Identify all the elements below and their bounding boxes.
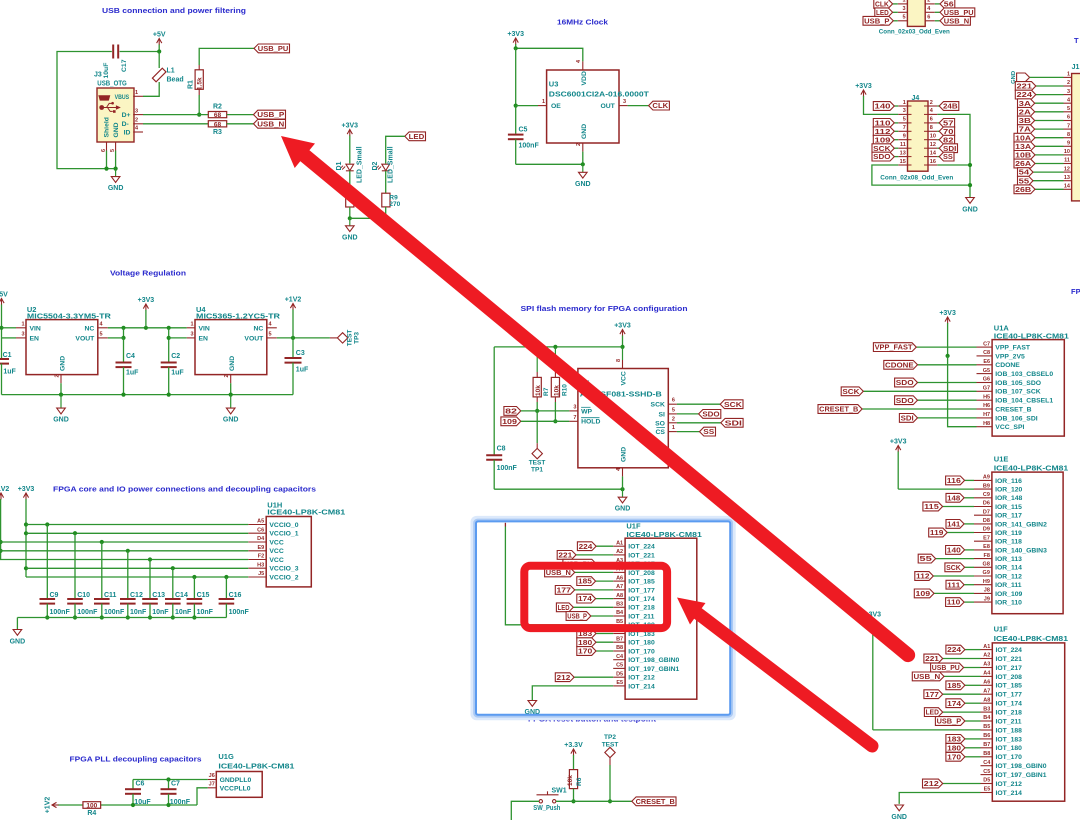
svg-text:VCCIO_2: VCCIO_2 [269, 574, 298, 581]
wire CRESET_B label to pin H6 [862, 408, 976, 410]
svg-text:A3: A3 [983, 662, 990, 668]
svg-text:IOT_185: IOT_185 [996, 683, 1023, 690]
wire +3V3 to D1 [349, 136, 351, 164]
svg-text:USB_OTG: USB_OTG [97, 81, 127, 88]
pin 1 VIN of U2 [16, 327, 26, 329]
svg-text:A6: A6 [983, 680, 990, 686]
global label USB_PU at top connector right [940, 8, 975, 17]
svg-text:FPGA PLL decoupling capacitors: FPGA PLL decoupling capacitors [70, 755, 202, 764]
USB trident icon inside J3 [99, 102, 121, 113]
svg-text:VCCPLL0: VCCPLL0 [220, 785, 251, 792]
svg-text:2: 2 [1067, 80, 1070, 86]
wire SW1 left down to edge [511, 801, 539, 820]
flash top rail [494, 346, 622, 348]
pin E9 VCC of U1H [248, 550, 266, 552]
ground symbol below D1 [349, 218, 351, 226]
svg-text:1: 1 [902, 0, 905, 4]
global label CDONE [884, 360, 918, 369]
global label 10A at J1 [1014, 133, 1035, 142]
pin B8 IOT_170 of U1F right [981, 756, 993, 758]
svg-text:GND: GND [342, 234, 358, 241]
svg-text:SS: SS [703, 429, 714, 436]
svg-text:148: 148 [947, 495, 960, 502]
svg-text:VDD: VDD [581, 71, 588, 85]
pin 8 VCC of U5 [622, 347, 624, 360]
global label 3A at J1 [1018, 99, 1035, 108]
pin A8 IOT_174 of U1F right [981, 702, 993, 704]
svg-text:2: 2 [576, 143, 582, 146]
pin C6 VCCIO_1 of U1H [248, 532, 266, 534]
wire VCCIO_2 row [26, 576, 248, 578]
wire USB_PU label to U1F right pin [964, 667, 981, 669]
svg-text:TP2: TP2 [604, 734, 616, 741]
wire J4 pin 15 to ground [872, 165, 970, 185]
svg-text:55: 55 [1019, 178, 1030, 185]
global label 174 at U1F center [577, 594, 596, 603]
svg-text:+1V2: +1V2 [45, 797, 52, 814]
global label SS at J4 right [939, 152, 954, 161]
global label 185 at U1F right [946, 681, 965, 690]
svg-text:DSC6001CI2A-016.0000T: DSC6001CI2A-016.0000T [549, 89, 649, 98]
svg-text:IOT_177: IOT_177 [628, 587, 655, 594]
wire C17 right to junction [120, 51, 160, 53]
global label LED at U1F right [924, 708, 942, 717]
svg-text:IOR_115: IOR_115 [995, 504, 1022, 511]
pin G6 IOB_105_SDO of U1A [977, 382, 993, 384]
wire USB_N label to U1F right pin [944, 675, 981, 677]
svg-text:GND: GND [108, 185, 124, 192]
svg-text:C10: C10 [77, 592, 90, 599]
svg-text:A1: A1 [616, 540, 623, 546]
svg-text:+3V3: +3V3 [507, 31, 524, 38]
wire 180 label to U1F center pin [596, 641, 613, 643]
svg-text:G5: G5 [983, 368, 990, 374]
pin 4 of J1 [1064, 102, 1072, 104]
svg-text:VCC: VCC [269, 539, 283, 546]
wire R2 to USB_P label [227, 114, 254, 116]
svg-text:D5: D5 [983, 778, 990, 784]
junction dots on +3V3 column [24, 522, 28, 526]
pin 5 of J4 [898, 122, 907, 124]
svg-text:10nF: 10nF [152, 609, 169, 616]
svg-text:3B: 3B [1019, 118, 1031, 125]
global label 26B at J1 [1014, 185, 1035, 194]
svg-text:B4: B4 [616, 610, 624, 616]
pin B3 IOT_218 of U1F right [981, 711, 993, 713]
svg-text:C2: C2 [171, 353, 180, 360]
svg-text:IOT_214: IOT_214 [996, 790, 1023, 797]
global label 115 at U1E [923, 502, 943, 511]
global label CRESET_B at reset [632, 797, 676, 806]
red highlight rectangle [524, 566, 667, 628]
svg-text:F8: F8 [983, 553, 989, 559]
global label USB_PU [254, 44, 290, 53]
global label 170 at U1F center [577, 647, 596, 656]
svg-text:D2: D2 [372, 161, 379, 170]
svg-text:12: 12 [1064, 166, 1070, 172]
wire 119 label to U1E pin [947, 532, 974, 534]
pin H5 IOB_104_CBSEL1 of U1A [977, 399, 993, 401]
svg-text:CS: CS [655, 429, 665, 436]
global label 112 at J4 left [873, 127, 894, 136]
wire 112 label to U1E pin [933, 575, 974, 577]
wire 221 label to J1 pin 2 [1036, 85, 1064, 87]
svg-text:12: 12 [930, 142, 936, 148]
svg-text:5: 5 [903, 117, 906, 123]
svg-text:B3: B3 [616, 602, 623, 608]
pin 3 EN of U4 [187, 337, 195, 339]
wire USB_N to top connector right [935, 20, 940, 22]
svg-text:+3V3: +3V3 [342, 122, 359, 129]
svg-text:+1V2: +1V2 [0, 486, 9, 493]
svg-text:C14: C14 [175, 592, 188, 599]
svg-text:TP3: TP3 [354, 332, 361, 344]
svg-text:B8: B8 [616, 645, 623, 651]
svg-text:8: 8 [616, 359, 622, 362]
wire C5 to clock ground [516, 163, 583, 165]
svg-text:WP: WP [581, 408, 592, 415]
global label USB_P [254, 110, 286, 119]
pin 9 of J1 [1064, 145, 1072, 147]
svg-text:C17: C17 [121, 59, 128, 72]
svg-text:C8: C8 [497, 445, 506, 452]
wire D1 to resistor [349, 171, 351, 197]
svg-text:SCK: SCK [842, 389, 859, 396]
svg-text:10k: 10k [535, 385, 542, 396]
svg-text:IOT_224: IOT_224 [628, 544, 655, 551]
svg-text:9: 9 [1067, 141, 1070, 147]
pin D5 IOT_212 of U1F right [981, 783, 993, 785]
junction at +5V node [157, 49, 161, 53]
svg-text:3: 3 [1067, 89, 1070, 95]
svg-text:IOR_111: IOR_111 [995, 582, 1022, 589]
svg-text:VCCIO_0: VCCIO_0 [269, 522, 298, 529]
pin B6 IOT_183 of U1F right [981, 738, 993, 740]
global label SCK at U1E [945, 563, 965, 572]
wire 141 label to U1E pin [964, 523, 974, 525]
svg-text:111: 111 [947, 582, 960, 589]
global label USB_P at U1F right [935, 717, 965, 726]
wire SDI label to pin H7 [918, 417, 977, 419]
wire 109 label to U1E pin [934, 592, 974, 594]
wire +5V to junction [158, 45, 160, 52]
svg-text:B7: B7 [616, 636, 623, 642]
pin B5 IOT_188 of U1F center [613, 624, 625, 626]
wire 10A label to J1 pin 8 [1035, 137, 1064, 139]
global label 109 at U1E [914, 589, 934, 598]
global label 177 at U1F center [555, 586, 574, 595]
svg-text:10B: 10B [1015, 153, 1031, 160]
wire 3A label to J1 pin 4 [1035, 102, 1064, 104]
pin G9 IOR_112 of U1E [974, 575, 992, 577]
pin B7 IOT_180 of U1F right [981, 747, 993, 749]
oscillator U3 body [547, 70, 619, 143]
wire 148 label to U1E pin [964, 497, 974, 499]
pin J6 GNDPLL0 of U1G [208, 779, 217, 781]
svg-text:IOT_180: IOT_180 [996, 745, 1023, 752]
wire 212 label to U1F center pin [574, 676, 613, 678]
svg-text:B8: B8 [983, 751, 990, 757]
pin A6 IOT_185 of U1F center [613, 580, 625, 582]
wire SDI label to J4 right [937, 147, 939, 149]
svg-text:185: 185 [578, 579, 592, 586]
svg-text:IOT_197_GBIN1: IOT_197_GBIN1 [996, 772, 1047, 779]
wire LED label to U1F center pin [573, 606, 613, 608]
global label 111 at U1E [946, 580, 964, 589]
svg-text:B3: B3 [983, 706, 990, 712]
svg-text:6: 6 [672, 398, 675, 404]
svg-text:170: 170 [578, 649, 592, 656]
global label 185 at U1F center [577, 577, 596, 586]
svg-text:J5: J5 [258, 571, 264, 577]
global label SDO at G6 [895, 378, 918, 387]
pin 4 of J4 [928, 113, 937, 115]
pin D7 IOR_117 of U1E [974, 514, 992, 516]
wire 183 label to U1F center pin [596, 633, 613, 635]
wire 54 label to J1 pin 12 [1033, 171, 1064, 173]
wire +3V3 to J4 pin 3 [864, 96, 899, 114]
wire USB_PU to top connector right [935, 11, 940, 13]
svg-text:LED: LED [409, 134, 425, 141]
global label SDI at H7 [899, 414, 917, 423]
svg-text:1.5k: 1.5k [197, 77, 204, 90]
global label 180 at U1F center [577, 638, 596, 647]
junction at OE node [514, 104, 518, 108]
wire 212 label to U1F right pin [943, 783, 981, 785]
pin H8 VCC_SPI of U1A [977, 426, 993, 428]
resistor R2 68 [208, 112, 226, 118]
svg-text:68: 68 [214, 121, 222, 128]
wire L1 to VBUS pin [143, 82, 159, 96]
svg-text:A1: A1 [983, 644, 990, 650]
global label SCK [720, 400, 743, 409]
svg-text:VIN: VIN [30, 325, 41, 332]
svg-text:10nF: 10nF [197, 609, 214, 616]
pin 2 of J1 [1064, 85, 1072, 87]
global label USB_N at U1F right [912, 672, 944, 681]
svg-text:13: 13 [1064, 175, 1070, 181]
pin 7 HOLD of U5 [569, 420, 578, 422]
capacitor C2 1uF [161, 362, 177, 364]
global label 110 at J4 left [873, 119, 894, 128]
pin C9 IOR_148 of U1E [974, 497, 992, 499]
svg-text:6: 6 [930, 117, 933, 123]
wire 70 label to J4 right [937, 130, 939, 132]
svg-text:7: 7 [1067, 123, 1070, 129]
svg-text:IOT_212: IOT_212 [996, 781, 1023, 788]
pin 11 of J4 [898, 147, 907, 149]
svg-text:R3: R3 [213, 129, 222, 136]
pin 7 of J1 [1064, 128, 1072, 130]
svg-text:54: 54 [1019, 170, 1030, 177]
svg-text:10A: 10A [1015, 135, 1031, 142]
global label 3B at J1 [1018, 116, 1035, 125]
pin 14 of J1 [1064, 188, 1072, 190]
svg-text:IOT_211: IOT_211 [996, 718, 1022, 725]
svg-text:11: 11 [900, 142, 906, 148]
svg-text:LED_Small: LED_Small [357, 146, 364, 183]
svg-text:B5: B5 [983, 724, 990, 730]
svg-text:Voltage Regulation: Voltage Regulation [110, 269, 186, 278]
global label 221 at U1F right [924, 654, 943, 663]
pin B4 IOT_211 of U1F center [613, 615, 625, 617]
wire 224 label to U1F right pin [965, 649, 981, 651]
capacitor C4 1uF [123, 338, 125, 362]
pin D5 IOT_212 of U1F center [613, 676, 625, 678]
svg-text:177: 177 [557, 588, 572, 595]
svg-text:G7: G7 [983, 386, 990, 392]
wire 110 label to U1E pin [964, 601, 974, 603]
svg-text:R7: R7 [543, 387, 550, 396]
svg-text:+5V: +5V [153, 31, 166, 38]
svg-text:ICE40-LP8K-CM81: ICE40-LP8K-CM81 [994, 463, 1068, 472]
capacitor C15 10nF [192, 575, 196, 579]
wire 7A label to J1 pin 7 [1035, 128, 1064, 130]
svg-text:+3V3: +3V3 [939, 310, 956, 317]
svg-text:2: 2 [55, 374, 61, 377]
svg-text:VOUT: VOUT [244, 335, 264, 342]
wire 185 label to U1F center pin [596, 580, 614, 582]
global label 148 at U1E [946, 493, 964, 502]
wire 110 label to J4 [894, 122, 898, 124]
wire +3V3 rail from U2 to U4 [108, 327, 187, 329]
svg-text:USB_P: USB_P [257, 112, 284, 119]
svg-text:G9: G9 [983, 570, 990, 576]
svg-text:1uF: 1uF [171, 370, 184, 377]
svg-text:IOT_198_GBIN0: IOT_198_GBIN0 [996, 763, 1047, 770]
svg-text:VCCIO_1: VCCIO_1 [269, 531, 298, 538]
wire +3V3 down to VCCIO rows [25, 499, 27, 577]
svg-text:VBUS: VBUS [115, 94, 130, 101]
svg-text:3: 3 [623, 99, 626, 105]
pin 10 of J1 [1064, 154, 1072, 156]
pin 11 of J1 [1064, 163, 1072, 165]
global label USB_N at U1F center [545, 568, 575, 577]
svg-text:F2: F2 [258, 554, 264, 560]
pin 1 of J1 [1064, 76, 1072, 78]
svg-text:C5: C5 [519, 127, 528, 134]
svg-text:J8: J8 [984, 588, 990, 594]
svg-text:D5: D5 [616, 671, 623, 677]
svg-text:U3: U3 [549, 80, 559, 89]
resistor R6 10k pullup [569, 770, 577, 789]
svg-text:C5: C5 [616, 663, 623, 669]
wire VPP_FAST label to pin [916, 346, 976, 348]
svg-text:IOT_208: IOT_208 [628, 570, 655, 577]
svg-text:CRESET_B: CRESET_B [995, 406, 1031, 413]
svg-text:GND: GND [581, 124, 588, 139]
svg-text:174: 174 [947, 701, 961, 708]
pin C5 IOT_197_GBIN1 of U1F center [613, 667, 625, 669]
wire 3B label to J1 pin 6 [1035, 120, 1064, 122]
pin A5 VCCIO_0 of U1H [248, 524, 266, 526]
svg-text:A6: A6 [616, 575, 623, 581]
svg-text:J1: J1 [1072, 64, 1080, 71]
vertical tie pin4 to pin5 net at C4 [123, 328, 125, 338]
pin A4 IOT_208 of U1F center [613, 571, 625, 573]
svg-text:55: 55 [919, 556, 932, 563]
svg-text:C11: C11 [104, 592, 117, 599]
pin 4 NC of U2 [98, 327, 108, 329]
pin 3 of J1 [1064, 94, 1072, 96]
svg-text:VCC: VCC [269, 557, 283, 564]
wire D1 node to D2 node [350, 217, 386, 219]
pin A2 IOT_221 of U1F right [981, 658, 993, 660]
wire GND label to J1 pin 1 [1030, 76, 1064, 78]
svg-text:+3V3: +3V3 [18, 486, 35, 493]
pin 4 GND of U5 [622, 468, 624, 477]
svg-text:140: 140 [875, 104, 891, 111]
svg-text:A2: A2 [983, 653, 990, 659]
svg-text:E5: E5 [616, 680, 623, 686]
wire 26A label to J1 pin 11 [1035, 163, 1064, 165]
pin D8 IOR_141_GBIN2 of U1E [974, 523, 992, 525]
svg-text:A9: A9 [983, 475, 990, 481]
global label SCK at G7 [841, 387, 863, 396]
svg-text:GND: GND [891, 814, 907, 820]
svg-text:SW1: SW1 [552, 788, 567, 795]
wire +3V3 down and to VDD [515, 44, 517, 48]
global label LED at U1F center [556, 603, 573, 612]
wire J4 pin 16 to ground [937, 164, 970, 166]
svg-text:IOR_109: IOR_109 [995, 591, 1022, 598]
ground symbol below U3 [582, 164, 584, 172]
wire CDONE label to pin [918, 364, 977, 366]
svg-text:IOT_217: IOT_217 [996, 665, 1023, 672]
pin 13 of J4 [898, 156, 907, 158]
wire LED label to D2 [386, 136, 405, 163]
wire 111 label to U1E pin [964, 584, 974, 586]
pin E5 IOT_214 of U1F right [981, 792, 993, 794]
svg-text:Conn_02x08_Odd_Even: Conn_02x08_Odd_Even [880, 175, 953, 182]
svg-text:Bead: Bead [167, 77, 184, 84]
svg-text:13A: 13A [1015, 144, 1031, 151]
svg-text:119: 119 [930, 530, 944, 537]
wire +3V3 node down to OE [515, 48, 517, 105]
svg-text:IOR_113: IOR_113 [995, 556, 1022, 563]
wire 224 label to U1F center pin [596, 545, 613, 547]
wire rail up to VCCPLL0 [197, 788, 208, 805]
capacitor C12 10nF [126, 549, 130, 553]
svg-text:U1F: U1F [994, 625, 1009, 634]
svg-text:OE: OE [551, 103, 561, 110]
resistor R4 100 [83, 802, 101, 809]
svg-text:IOB_104_CBSEL1: IOB_104_CBSEL1 [995, 398, 1053, 405]
svg-text:SCK: SCK [724, 402, 742, 409]
svg-text:R4: R4 [87, 810, 96, 817]
svg-text:B4: B4 [983, 715, 991, 721]
svg-text:D1: D1 [336, 161, 343, 170]
svg-text:10k: 10k [567, 775, 574, 786]
wire +3V3 to IOT_188 pin [873, 729, 981, 731]
svg-text:1uF: 1uF [126, 370, 139, 377]
svg-text:USB_N: USB_N [944, 18, 969, 25]
svg-text:10: 10 [930, 134, 936, 140]
resistor R7 10k [536, 347, 538, 372]
svg-text:2: 2 [135, 118, 138, 124]
svg-text:IOT_208: IOT_208 [996, 674, 1023, 681]
svg-text:GND: GND [575, 181, 591, 188]
pin 9 of J4 [898, 139, 907, 141]
svg-text:GND: GND [59, 356, 66, 371]
svg-text:D+: D+ [122, 112, 131, 119]
flash memory U5 body [578, 369, 668, 468]
wire 109 to HOLD pin [521, 420, 570, 422]
wire +3V3 to IOR_120 pin [898, 488, 974, 490]
ground symbol below U1F center [528, 701, 537, 707]
svg-text:109: 109 [916, 591, 931, 598]
capacitor C10 100nF [73, 531, 77, 535]
